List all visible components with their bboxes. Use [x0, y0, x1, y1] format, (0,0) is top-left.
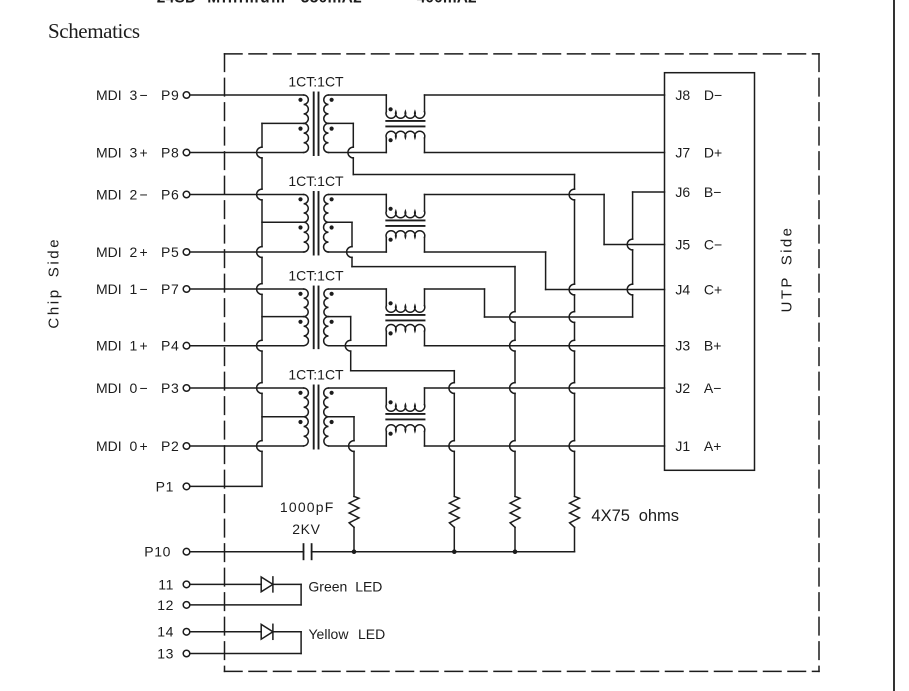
pin P8 label MDI 3+	[96, 144, 179, 160]
choke L3 bottom winding	[386, 324, 425, 331]
transformer T2 secondary winding	[324, 195, 329, 253]
terminal circle P6	[183, 191, 190, 198]
transformer T3 core	[314, 287, 319, 349]
resistor R3 75 ohm	[510, 496, 520, 527]
wire P8 to transformer	[190, 152, 303, 154]
choke L2 bottom winding	[386, 231, 425, 238]
title Schematics	[48, 19, 140, 43]
wire T3 ct drop	[345, 317, 350, 371]
pin label J1 A+	[675, 438, 721, 454]
svg-text:MDI0+P2: MDI0+P2	[96, 438, 179, 454]
svg-text:2KV: 2KV	[292, 521, 320, 537]
svg-text:J4C+: J4C+	[675, 282, 722, 298]
wire T3 primary center tap to bus	[262, 316, 304, 318]
wire P4 to transformer	[190, 345, 303, 347]
terminal circle P4	[183, 342, 190, 349]
choke L4 core	[386, 414, 424, 420]
label UTP Side	[779, 226, 796, 313]
wire choke L3 to J3	[425, 345, 665, 347]
transformer T4 label 1CT:1CT	[288, 366, 344, 382]
pin P9 label MDI 3−	[96, 87, 179, 103]
capacitor C1 1000pF	[304, 544, 312, 559]
svg-text:J2A−: J2A−	[675, 380, 721, 396]
choke L1 polarity dots	[389, 107, 393, 142]
choke L2 core	[386, 220, 424, 226]
wire choke L1 to J8	[425, 94, 665, 96]
capacitor C1 label	[280, 499, 335, 537]
svg-text:MDI3+P8: MDI3+P8	[96, 144, 179, 160]
terminal circle pin 14	[183, 629, 190, 636]
svg-text:YellowLED: YellowLED	[309, 626, 386, 642]
wire T1 ct drop	[348, 123, 353, 174]
pin 11 label	[158, 576, 174, 592]
svg-text:MDI1+P4: MDI1+P4	[96, 338, 179, 354]
choke L2 top winding	[386, 211, 425, 218]
wire P2 to transformer	[190, 445, 303, 447]
top cropped text row	[157, 0, 477, 7]
svg-text:MDI2+P5: MDI2+P5	[96, 244, 179, 260]
wire T3 to choke bottom	[329, 345, 387, 347]
choke L4 input verticals	[385, 388, 387, 446]
resistor R1 75 ohm	[349, 496, 359, 527]
transformer T1 label 1CT:1CT	[288, 73, 344, 89]
wire T3 ct horizontal run	[351, 370, 455, 372]
connector box J1-J8	[665, 73, 755, 471]
svg-text:1CT:1CT: 1CT:1CT	[288, 173, 344, 189]
pin 12 label	[157, 597, 174, 613]
svg-text:Schematics: Schematics	[48, 19, 140, 43]
svg-text:1CT:1CT: 1CT:1CT	[288, 267, 344, 283]
wire P3 to transformer	[190, 387, 303, 389]
wire ch2 to J4	[546, 289, 665, 291]
green LED D1	[190, 577, 301, 605]
svg-text:MDI2−P6: MDI2−P6	[96, 186, 179, 202]
wire capacitor to bottom bus	[312, 551, 354, 553]
terminal circle P9	[183, 92, 190, 99]
wire J6 vertical	[627, 192, 632, 317]
terminal circle P2	[183, 443, 190, 450]
wire choke L1 to J7	[425, 152, 665, 154]
terminal circle pin 11	[183, 581, 190, 588]
svg-text:4X75ohms: 4X75ohms	[591, 507, 679, 525]
terminal circle P7	[183, 286, 190, 293]
svg-text:11: 11	[158, 576, 174, 592]
wire T1 center tap right	[329, 122, 354, 124]
pin label J8 D−	[675, 87, 722, 103]
wire T2 to choke top	[329, 194, 387, 196]
svg-text:400mA2: 400mA2	[417, 0, 477, 7]
svg-text:Minimum: Minimum	[207, 0, 286, 7]
svg-text:P1: P1	[156, 478, 174, 494]
terminal circle pin 13	[183, 650, 190, 657]
choke L3 input verticals	[385, 289, 387, 346]
wire T3 center tap right	[329, 316, 351, 318]
transformer T1 primary winding	[304, 95, 309, 153]
choke L1 input verticals	[385, 95, 387, 153]
resistor R2 75 ohm	[449, 496, 459, 527]
bottom termination bus	[354, 551, 575, 553]
pin P3 label MDI 0−	[96, 380, 179, 396]
svg-text:1000pF: 1000pF	[280, 499, 335, 515]
choke L1 top winding	[386, 112, 425, 119]
wire ch2 bottom jog down	[545, 252, 547, 290]
svg-text:P10: P10	[144, 544, 171, 560]
pin label J7 D+	[675, 145, 722, 161]
transformer T3 polarity dots	[298, 292, 333, 324]
yellow LED D2	[190, 624, 301, 653]
svg-text:MDI1−P7: MDI1−P7	[96, 281, 179, 297]
wire ch3 top jog down	[484, 289, 486, 317]
pin P1 label	[156, 478, 174, 494]
wire P5 to transformer	[190, 251, 303, 253]
wire T2 center tap right	[329, 221, 353, 223]
choke L3 core	[386, 315, 424, 321]
choke L3 top winding	[386, 306, 425, 313]
wire T4 to choke bottom	[329, 445, 387, 447]
svg-text:1CT:1CT: 1CT:1CT	[288, 73, 344, 89]
transformer T2 core	[314, 192, 319, 255]
svg-text:350mA2: 350mA2	[301, 0, 362, 7]
pin P6 label MDI 2−	[96, 186, 179, 202]
svg-text:J1A+: J1A+	[675, 438, 721, 454]
svg-text:J6B−: J6B−	[675, 184, 721, 200]
transformer T1 secondary winding	[324, 95, 329, 153]
choke L2 polarity dots	[389, 207, 393, 242]
terminal circle P5	[183, 249, 190, 256]
transformer T3 primary winding	[304, 289, 309, 346]
wire T3 to choke top	[329, 288, 387, 290]
dashed border	[225, 54, 820, 672]
wire T4 primary center tap to bus	[262, 416, 304, 418]
page border line	[893, 0, 895, 691]
resistor R2 bottom lead	[453, 527, 455, 551]
wire T2 to choke bottom	[329, 251, 387, 253]
transformer T4 primary winding	[304, 388, 309, 446]
pin 14 label	[157, 624, 174, 640]
wire T4 to choke top	[329, 387, 387, 389]
yellow LED label	[309, 626, 386, 642]
resistor R1 bottom lead	[353, 527, 355, 551]
terminal circle P3	[183, 385, 190, 392]
pin P4 label MDI 1+	[96, 338, 179, 354]
svg-text:MDI0−P3: MDI0−P3	[96, 380, 179, 396]
svg-text:Chip Side: Chip Side	[46, 237, 63, 329]
svg-text:GreenLED: GreenLED	[308, 578, 382, 594]
transformer T3 label 1CT:1CT	[288, 267, 344, 283]
choke L4 top winding	[386, 405, 425, 412]
junction dots bottom bus	[352, 549, 518, 554]
pin label J2 A−	[675, 380, 721, 396]
green LED label	[308, 578, 382, 594]
resistor R4 75 ohm	[570, 496, 580, 527]
wire choke L2 bottom run	[425, 251, 546, 253]
choke L1 bottom winding	[386, 131, 425, 138]
wire choke L4 to J1	[425, 445, 665, 447]
svg-text:J7D+: J7D+	[675, 145, 722, 161]
terminal circle P10	[183, 548, 190, 555]
transformer T2 polarity dots	[298, 197, 333, 229]
choke L1 core	[386, 121, 424, 127]
wire ch2 top jog down	[603, 195, 605, 245]
transformer T4 polarity dots	[298, 391, 333, 424]
terminal circle P8	[183, 149, 190, 156]
transformer T2 label 1CT:1CT	[288, 173, 344, 189]
svg-text:12: 12	[157, 597, 174, 613]
wire T1 to choke bottom	[329, 152, 387, 154]
svg-text:J8D−: J8D−	[675, 87, 722, 103]
wire T1 primary center tap to bus	[262, 122, 304, 124]
pin 13 label	[157, 645, 174, 661]
wire choke L2 top run	[425, 194, 605, 196]
pin P10 label	[144, 544, 171, 560]
wire T3 ct to resistor R2	[449, 371, 454, 497]
choke L3 output verticals	[424, 289, 426, 346]
resistors value label 4X75 ohms	[591, 507, 679, 525]
pin P2 label MDI 0+	[96, 438, 179, 454]
transformer T2 primary winding	[304, 195, 309, 253]
pin label J4 C+	[675, 282, 722, 298]
center-tap bus	[257, 123, 262, 486]
svg-text:24SD: 24SD	[157, 0, 197, 7]
choke L4 bottom winding	[386, 425, 425, 432]
wire choke L4 to J2	[425, 387, 665, 389]
terminal circle pin 12	[183, 602, 190, 609]
wire ch3 jog horizontal	[485, 316, 633, 318]
wire T2 ct drop	[347, 222, 352, 266]
choke L4 polarity dots	[389, 400, 393, 436]
resistor R3 bottom lead	[514, 527, 516, 551]
wire T4 center tap right	[329, 416, 355, 418]
choke L2 output verticals	[424, 195, 426, 253]
transformer T1 polarity dots	[298, 98, 333, 131]
wire P10 to capacitor	[190, 551, 303, 553]
wire P9 to transformer	[190, 94, 303, 96]
transformer T1 core	[314, 93, 319, 156]
choke L1 output verticals	[424, 95, 426, 153]
choke L4 output verticals	[424, 388, 426, 446]
choke L3 polarity dots	[389, 301, 393, 335]
wire ch2 to J5	[604, 244, 664, 246]
wire T2 ct horizontal run	[352, 266, 515, 268]
svg-text:MDI3−P9: MDI3−P9	[96, 87, 179, 103]
wire T1 ct horizontal run	[353, 174, 574, 176]
wire J6 stub	[633, 191, 665, 193]
choke L2 input verticals	[385, 195, 387, 253]
wire P1 to bus	[190, 485, 262, 487]
wire T1 ct to resistor R4	[569, 175, 574, 497]
pin label J6 B−	[675, 184, 721, 200]
wire T2 ct to resistor R3	[510, 267, 515, 497]
wire P7 to transformer	[190, 288, 303, 290]
transformer T4 core	[314, 386, 319, 449]
svg-text:13: 13	[157, 645, 174, 661]
pin P7 label MDI 1−	[96, 281, 179, 297]
transformer T3 secondary winding	[324, 289, 329, 346]
svg-text:1CT:1CT: 1CT:1CT	[288, 366, 344, 382]
transformer T4 secondary winding	[324, 388, 329, 446]
svg-text:J3B+: J3B+	[675, 338, 721, 354]
pin label J5 C−	[675, 237, 722, 253]
resistor R4 bottom lead	[574, 527, 576, 551]
wire T4 ct to resistor R1	[349, 417, 354, 497]
terminal circle P1	[183, 483, 190, 490]
wire P6 to transformer	[190, 194, 303, 196]
pin P5 label MDI 2+	[96, 244, 179, 260]
svg-text:14: 14	[157, 624, 174, 640]
wire T2 primary center tap to bus	[262, 221, 304, 223]
wire choke L3 top run	[425, 288, 485, 290]
svg-text:UTP Side: UTP Side	[779, 226, 796, 313]
wire T1 to choke top	[329, 94, 387, 96]
label Chip Side	[46, 237, 63, 329]
svg-text:J5C−: J5C−	[675, 237, 722, 253]
pin label J3 B+	[675, 338, 721, 354]
